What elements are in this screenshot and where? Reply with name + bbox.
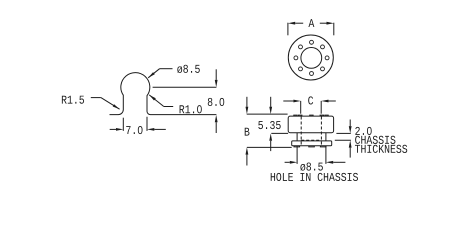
dimension 2.0 top extension line — [336, 132, 350, 134]
top view outer circle — [288, 35, 333, 80]
hole extension line left — [296, 146, 298, 164]
leader text R1.5 — [62, 96, 84, 104]
dimension C right arrow — [321, 100, 336, 103]
leader text diameter 8.5 dome — [177, 65, 199, 73]
dimension 2.0 top arrow — [349, 120, 352, 134]
top view ring of 8 small holes — [294, 40, 329, 75]
dimension 2.0 bottom arrow — [349, 140, 352, 157]
dimension C extension line right — [320, 101, 322, 114]
dimension 7.0 left arrow — [110, 128, 124, 131]
leader text R1.0 — [180, 105, 202, 113]
dimension 5.35 top arrow — [269, 97, 272, 114]
dimension hole right arrow — [326, 161, 346, 164]
dimension 8.0 top extension line — [153, 86, 217, 88]
dimension text 2.0 — [355, 127, 371, 135]
leader line R1.0 — [149, 95, 173, 107]
cap bottom extension line — [271, 132, 288, 134]
dimension 5.35 bottom arrow — [269, 134, 272, 152]
top extension line for B and 5.35 — [247, 113, 288, 115]
grommet profile outline (left side view) — [110, 73, 217, 115]
leader line R1.5 — [91, 98, 120, 110]
dimension 7.0 right arrow — [147, 128, 166, 131]
dimension 7.0 extension line left — [122, 118, 124, 131]
side view neck left edge — [296, 133, 298, 141]
dimension text A — [308, 19, 314, 27]
dimension B top arrow — [246, 97, 249, 114]
dimension A extension line left — [287, 23, 289, 36]
dimension C extension line left — [300, 101, 302, 114]
label text THICKNESS — [355, 145, 407, 153]
hidden line center hole left — [300, 117, 302, 146]
dimension 8.0 bottom arrow — [215, 115, 218, 133]
dimension 8.0 top arrow — [215, 69, 218, 87]
dimension A extension line right — [333, 23, 335, 36]
dimension text 8.0 — [208, 98, 224, 106]
flange bottom extension line — [247, 146, 292, 148]
hole extension line right — [325, 146, 327, 164]
dimension text diameter 8.5 hole — [300, 162, 322, 170]
label text CHASSIS — [355, 136, 395, 144]
dimension 2.0 bottom extension line — [335, 139, 351, 141]
top view center hole — [301, 48, 322, 69]
dimension text B — [245, 128, 250, 136]
side view hole openings on cap top — [294, 115, 328, 116]
dimension A line with arrows — [288, 22, 334, 25]
side view flange — [292, 141, 332, 146]
leader line diameter 8.5 dome — [148, 69, 172, 78]
hidden line center hole bottom — [301, 139, 321, 141]
side view hole openings on flange bottom — [294, 146, 326, 147]
dimension 7.0 extension line right — [146, 117, 148, 131]
hidden line center hole right — [320, 117, 322, 146]
dimension hole left arrow — [285, 161, 298, 164]
side view cap body — [288, 116, 333, 133]
label text HOLE IN CHASSIS — [271, 173, 358, 181]
dimension B bottom arrow — [246, 147, 249, 165]
dimension text 5.35 — [258, 121, 280, 129]
dimension text 7.0 — [126, 126, 142, 134]
dimension C left arrow — [283, 100, 300, 103]
side view neck right edge — [325, 133, 327, 141]
dimension text C — [308, 96, 313, 104]
